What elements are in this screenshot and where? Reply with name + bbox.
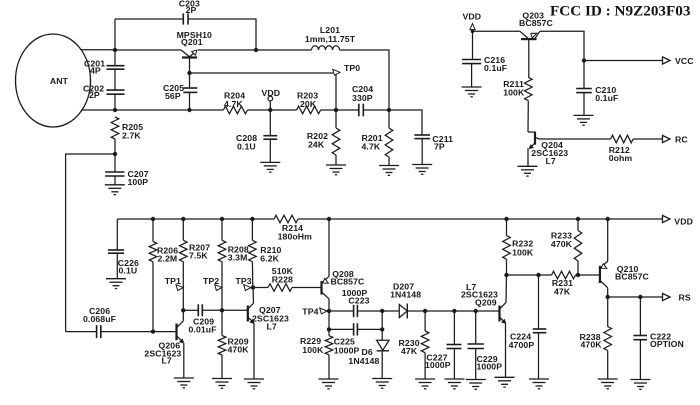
- capacitor C205: [183, 87, 197, 89]
- ground Q206: [174, 378, 194, 388]
- wire VCC: [584, 60, 663, 62]
- svg-text:7P: 7P: [434, 142, 445, 152]
- wire top feedback left: [115, 18, 183, 20]
- transistor Q209 2SC1623: [498, 306, 500, 322]
- ground C207: [105, 185, 125, 195]
- svg-text:1000P: 1000P: [334, 346, 360, 356]
- test point TP2 arrow: [215, 285, 222, 291]
- transistor Q201 MPSH10: [182, 56, 197, 58]
- node VDD corner: [471, 29, 475, 33]
- svg-text:100P: 100P: [128, 177, 149, 187]
- wire R208 lower: [221, 262, 223, 311]
- svg-text:TP1: TP1: [165, 276, 181, 286]
- svg-text:TP2: TP2: [203, 276, 219, 286]
- resistor R229: [325, 336, 333, 355]
- wire Q206 emitter stem: [183, 343, 185, 378]
- svg-text:470K: 470K: [228, 344, 250, 354]
- wire L201 left: [256, 49, 312, 51]
- resistor R231: [552, 271, 576, 279]
- wire C209 right: [202, 309, 247, 311]
- svg-text:L7: L7: [546, 156, 556, 166]
- wire R207 lower: [182, 262, 184, 321]
- diode D207 1N4148: [399, 305, 407, 318]
- svg-text:330P: 330P: [352, 93, 373, 103]
- node junction ANT bottom: [113, 108, 117, 112]
- wire Q209 emitter stem: [505, 323, 507, 377]
- svg-text:4P: 4P: [90, 66, 101, 76]
- svg-text:24K: 24K: [308, 140, 325, 150]
- node R205-C207 junction: [113, 152, 117, 156]
- wire C224 stem: [538, 275, 540, 329]
- test point TP1 arrow: [176, 285, 183, 291]
- wire C207 lower stem: [114, 176, 116, 185]
- node R206 bottom junction: [151, 329, 155, 333]
- wire Q201 base: [115, 50, 190, 57]
- resistor R214: [274, 215, 298, 223]
- svg-text:Q209: Q209: [475, 297, 497, 307]
- svg-text:0.01uF: 0.01uF: [189, 325, 217, 335]
- wire C208 lower stem: [269, 139, 271, 162]
- ground R230: [415, 379, 435, 389]
- node C227 top: [452, 309, 456, 313]
- svg-text:C223: C223: [348, 296, 369, 306]
- wire R204-R203: [247, 109, 296, 111]
- wire Q203 emitter right: [540, 31, 584, 60]
- wire main bias rail: [115, 109, 223, 111]
- svg-text:1000P: 1000P: [425, 360, 451, 370]
- wire Q208 emitter to rail: [328, 219, 330, 276]
- wire top feedback right: [188, 19, 256, 50]
- capacitor C203: [182, 13, 184, 24]
- capacitor C210: [576, 88, 592, 90]
- node C225 left junction: [327, 327, 331, 331]
- wire R207 stem: [182, 219, 184, 240]
- antenna ANT loop: [16, 34, 91, 127]
- transistor Q208 BC857C: [320, 281, 322, 295]
- node rail R233: [576, 217, 580, 221]
- svg-text:OPTION: OPTION: [650, 339, 684, 349]
- ground C224: [529, 379, 549, 389]
- wire Q201 emitter to node: [198, 49, 256, 51]
- node VDD tap: [268, 108, 272, 112]
- wire R201 lower stem: [388, 157, 390, 166]
- svg-text:BC857C: BC857C: [615, 272, 650, 282]
- wire Q208 collector: [328, 299, 330, 311]
- wire TP4 down: [328, 311, 330, 329]
- svg-text:2P: 2P: [186, 5, 197, 15]
- resistor R208: [218, 240, 226, 261]
- svg-text:VDD: VDD: [674, 217, 693, 227]
- svg-text:0.068uF: 0.068uF: [83, 314, 116, 324]
- wire R233 stem: [577, 219, 579, 231]
- wire D207 to node: [407, 310, 499, 312]
- node rail R207: [181, 217, 185, 221]
- node rail Q208: [327, 217, 331, 221]
- svg-text:6.2K: 6.2K: [260, 254, 279, 264]
- wire C223a to node: [357, 310, 382, 312]
- svg-text:1N4148: 1N4148: [390, 289, 421, 299]
- svg-text:TP0: TP0: [344, 63, 360, 73]
- test point TP4 arrow: [320, 308, 327, 314]
- svg-text:VDD: VDD: [463, 11, 482, 21]
- ground C216: [462, 87, 482, 97]
- node D-net top: [380, 309, 384, 313]
- capacitor C226: [108, 249, 124, 251]
- wire C222 stem: [639, 297, 641, 336]
- capacitor C201: [107, 65, 125, 67]
- transistor Q207 2SC1623: [247, 306, 249, 322]
- terminal VCC: [663, 57, 671, 64]
- node TP3 junction: [251, 285, 255, 289]
- wire Q203 base stem: [528, 39, 530, 77]
- resistor R205: [111, 117, 119, 139]
- svg-text:20K: 20K: [300, 99, 317, 109]
- wire C205 lower stem: [189, 92, 191, 110]
- wire R210 stem: [251, 219, 253, 240]
- svg-text:100K: 100K: [503, 88, 525, 98]
- wire TP0 stem: [335, 74, 337, 110]
- resistor R202: [332, 128, 340, 155]
- inductor L201: [312, 46, 340, 50]
- svg-text:2.7K: 2.7K: [122, 131, 141, 141]
- wire top-left vertical: [114, 19, 116, 50]
- wire Q210 emitter to rail: [607, 219, 609, 261]
- svg-text:RS: RS: [679, 292, 691, 302]
- wire R209 lower stem: [221, 355, 223, 379]
- transistor Q206 2SC1623: [175, 324, 177, 341]
- wire R232 stem: [506, 219, 508, 236]
- resistor R233: [574, 231, 582, 261]
- svg-text:TP4: TP4: [302, 306, 318, 316]
- wire Q209 collector: [505, 275, 508, 303]
- node junction ANT top: [113, 48, 117, 52]
- wire R238 lower stem: [607, 351, 609, 380]
- wire C210 lower stem: [583, 93, 585, 116]
- svg-text:4700P: 4700P: [509, 340, 535, 350]
- svg-text:BC857C: BC857C: [519, 18, 554, 28]
- svg-text:L7: L7: [162, 355, 172, 365]
- svg-text:1mm,11.75T: 1mm,11.75T: [305, 34, 356, 44]
- resistor R228: [268, 284, 292, 292]
- ground Q207: [244, 379, 264, 389]
- resistor R206: [149, 242, 157, 262]
- node TP4 junction: [327, 309, 331, 313]
- node L201 bottom junction: [387, 108, 391, 112]
- capacitor C216: [462, 59, 481, 61]
- node C209 left junction: [181, 308, 185, 312]
- wire RS net: [608, 296, 663, 298]
- wire C210 stem: [583, 61, 585, 89]
- resistor R210: [249, 240, 257, 261]
- wire D6 stem: [381, 329, 383, 340]
- wire VDD to C216: [472, 31, 474, 59]
- node rail R210: [250, 217, 254, 221]
- node TP0 bottom junction: [334, 108, 338, 112]
- ground C229: [466, 380, 486, 390]
- svg-text:BC857C: BC857C: [331, 277, 366, 287]
- svg-text:470K: 470K: [551, 239, 573, 249]
- wire R201 stem: [388, 110, 390, 128]
- svg-text:100K: 100K: [302, 345, 324, 355]
- wire C208 stem: [269, 110, 271, 136]
- wire C206 left: [66, 331, 97, 333]
- power VDD tap symbol: [268, 96, 273, 101]
- svg-text:180oHm: 180oHm: [278, 232, 313, 242]
- ground D6: [372, 379, 392, 389]
- wire C225 left: [329, 328, 354, 330]
- wire R232 lower stem: [506, 259, 508, 275]
- wire TP0: [190, 72, 334, 74]
- wire C227 stem: [453, 311, 455, 345]
- resistor R209: [218, 336, 226, 356]
- wire Q204 collector: [540, 138, 611, 140]
- svg-text:0.1uF: 0.1uF: [595, 93, 618, 103]
- resistor R212: [611, 135, 634, 143]
- wire Q210 collector: [607, 288, 609, 297]
- ground C222: [630, 380, 650, 390]
- test point TP0 arrow: [333, 69, 340, 75]
- svg-text:FCC ID : N9Z203F03: FCC ID : N9Z203F03: [550, 3, 691, 20]
- wire C209 left: [183, 309, 198, 311]
- wire C216 lower stem: [471, 64, 473, 87]
- wire VDD to Q203: [473, 30, 520, 32]
- wire Q207 emitter stem: [253, 323, 255, 379]
- svg-text:2P: 2P: [89, 90, 100, 100]
- wire C226 stem: [116, 219, 118, 250]
- node C229 top: [474, 309, 478, 313]
- wire C211 lower stem: [421, 139, 423, 165]
- node Q201 emitter junction: [254, 48, 258, 52]
- svg-text:0.1U: 0.1U: [119, 266, 138, 276]
- wire R212 to RC: [633, 138, 662, 140]
- svg-text:Q201: Q201: [181, 37, 203, 47]
- ground C208: [260, 162, 280, 172]
- capacitor C202: [107, 89, 125, 91]
- capacitor C206: [96, 325, 98, 338]
- wire to D207: [382, 310, 399, 312]
- wire Q201 collector: [189, 58, 191, 89]
- svg-text:1000P: 1000P: [477, 362, 503, 372]
- svg-text:0.1U: 0.1U: [237, 142, 256, 152]
- wire C207 stem: [114, 154, 116, 172]
- ground C210: [574, 115, 594, 125]
- resistor R201: [385, 128, 393, 157]
- ground C226: [106, 279, 126, 289]
- ground R202: [326, 165, 346, 175]
- node rail R232: [504, 217, 508, 221]
- wire C224 lower stem: [538, 333, 540, 379]
- test point TP3 arrow: [244, 285, 251, 291]
- node C224 top: [536, 273, 540, 277]
- node Q201 collector tap: [187, 71, 191, 75]
- wire L201 right: [340, 50, 390, 110]
- capacitor C222: [633, 335, 647, 337]
- wire R210 lower: [251, 262, 253, 288]
- wire R238 stem: [607, 297, 609, 327]
- transistor Q203 BC857C: [521, 38, 537, 40]
- capacitor C211: [414, 134, 430, 136]
- wire R231 to Q210: [576, 274, 600, 276]
- svg-text:4.7K: 4.7K: [224, 99, 243, 109]
- wire C206 right: [101, 331, 176, 333]
- ground R229: [319, 379, 339, 389]
- wire TP3 to R228: [253, 287, 268, 289]
- wire C227 lower stem: [453, 349, 455, 380]
- capacitor C223 upper: [353, 305, 355, 317]
- wire R206 lower: [152, 262, 154, 332]
- node R209 top junction: [220, 308, 224, 312]
- svg-text:RC: RC: [675, 135, 688, 145]
- wire R230 lower stem: [424, 353, 426, 379]
- wire R203-C204: [321, 109, 359, 111]
- ground Q209: [495, 377, 515, 387]
- resistor R204: [223, 106, 247, 114]
- capacitor C229: [468, 343, 484, 345]
- transistor Q210 BC857C: [599, 266, 601, 283]
- wire ANT bottom stub: [81, 109, 115, 111]
- svg-text:1N4148: 1N4148: [348, 356, 379, 366]
- svg-text:7.5K: 7.5K: [189, 250, 208, 260]
- svg-text:4.7K: 4.7K: [362, 142, 381, 152]
- capacitor C225: [353, 323, 355, 335]
- terminal RS: [663, 293, 671, 300]
- node VCC junction: [582, 58, 586, 62]
- capacitor C207: [105, 171, 124, 173]
- wire C201 upper stem: [114, 50, 116, 66]
- wire R228 to Q208: [292, 287, 322, 289]
- node D-net mid: [380, 327, 384, 331]
- resistor R230: [421, 331, 429, 353]
- node rail Q210: [606, 217, 610, 221]
- terminal RC: [663, 135, 671, 142]
- wire D-net vertical: [381, 311, 383, 329]
- wire D6 lower stem: [381, 351, 383, 379]
- node rail R206: [151, 217, 155, 221]
- diode D6 1N4148: [377, 340, 389, 350]
- capacitor C224: [533, 328, 547, 330]
- svg-text:2.2M: 2.2M: [158, 254, 178, 264]
- wire C225 right: [357, 328, 382, 330]
- resistor R203: [297, 106, 321, 114]
- svg-text:VCC: VCC: [675, 56, 694, 66]
- wire lower VDD rail left: [117, 218, 274, 220]
- ground R238: [598, 379, 618, 389]
- capacitor C209: [197, 304, 199, 316]
- wire R230 stem: [424, 311, 426, 331]
- node rail R208: [220, 217, 224, 221]
- transistor Q204 2SC1623: [528, 131, 535, 133]
- node Q201 collector bottom: [187, 108, 191, 112]
- resistor R207: [180, 240, 188, 261]
- svg-text:470K: 470K: [581, 340, 603, 350]
- wire R202 stem: [335, 110, 337, 128]
- capacitor C204: [358, 104, 360, 117]
- ground R201: [379, 166, 399, 176]
- wire C202 lower stem: [114, 94, 116, 110]
- svg-text:R228: R228: [272, 275, 293, 285]
- terminal VDD lower: [663, 215, 671, 222]
- wire R208 stem: [221, 219, 223, 240]
- resistor R232: [503, 236, 511, 260]
- wire R206 stem: [152, 219, 154, 242]
- power VDD arrow symbol: [470, 24, 475, 30]
- wire C222 lower stem: [639, 340, 641, 380]
- wire base net: [507, 274, 552, 276]
- wire ANT top stub: [81, 49, 115, 51]
- wire R233 lower stem: [577, 261, 579, 275]
- wire R229 lower stem: [328, 355, 330, 379]
- svg-text:56P: 56P: [165, 91, 181, 101]
- wire C201-C202 link: [114, 69, 116, 90]
- wire R209 stem: [221, 310, 223, 335]
- ground C211: [412, 165, 432, 175]
- wire C204-C211: [363, 110, 422, 135]
- svg-text:3.3M: 3.3M: [228, 253, 248, 263]
- ground R209: [212, 379, 232, 389]
- wire R229 stem: [328, 329, 330, 335]
- resistor R238: [604, 327, 612, 351]
- svg-text:ANT: ANT: [50, 76, 69, 86]
- capacitor C208: [263, 135, 277, 137]
- svg-text:47K: 47K: [401, 346, 418, 356]
- svg-text:0ohm: 0ohm: [609, 153, 633, 163]
- node C222 top: [638, 295, 642, 299]
- svg-text:100K: 100K: [512, 248, 534, 258]
- node R230 top: [423, 309, 427, 313]
- svg-text:L7: L7: [267, 321, 277, 331]
- wire C229 lower stem: [475, 349, 477, 380]
- node R233 bottom: [576, 273, 580, 277]
- wire C229 stem: [475, 311, 477, 344]
- wire Q204 emitter stem: [527, 148, 529, 166]
- svg-text:VDD: VDD: [262, 88, 281, 98]
- wire TP4 to C223a: [329, 310, 354, 312]
- wire R202 lower stem: [335, 155, 337, 165]
- svg-text:47K: 47K: [554, 287, 571, 297]
- node RS left: [606, 295, 610, 299]
- ground Q204: [518, 166, 538, 176]
- wire lower VDD rail right: [298, 218, 663, 220]
- capacitor C227: [447, 344, 462, 346]
- wire Q207 collector: [252, 288, 255, 304]
- wire to lower stage: [66, 154, 115, 332]
- resistor R211: [525, 77, 533, 100]
- wire R211 to Q204: [527, 101, 529, 132]
- ground C227: [444, 379, 464, 389]
- wire R205 lower: [114, 139, 116, 154]
- node R232 bottom: [504, 273, 508, 277]
- svg-text:0.1uF: 0.1uF: [484, 63, 507, 73]
- wire C226 lower stem: [116, 253, 118, 279]
